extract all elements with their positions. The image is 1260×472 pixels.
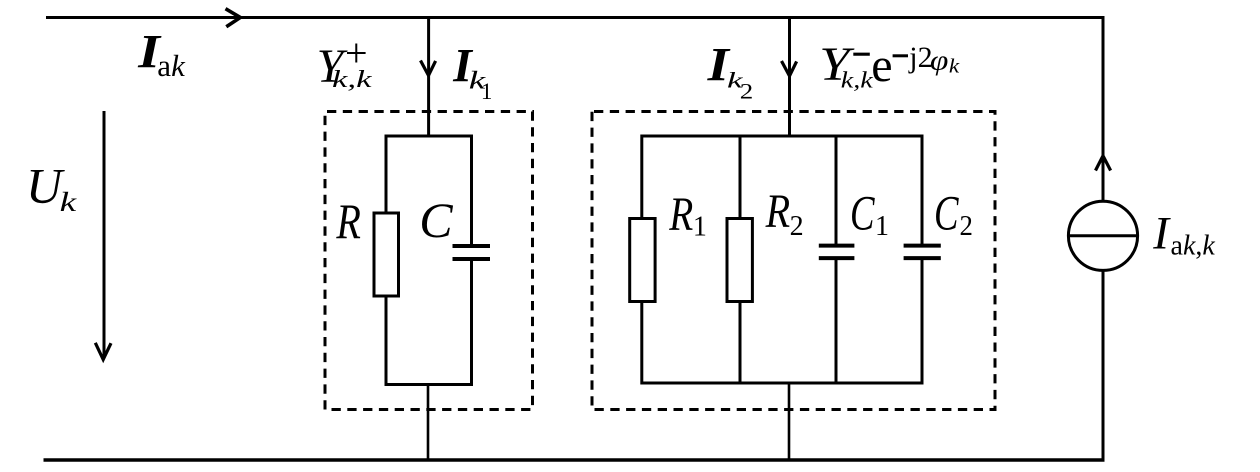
wire: C branch upper	[470, 135, 473, 247]
svg-text:ak,k: ak,k	[1171, 231, 1216, 262]
capacitor C top plate	[453, 244, 491, 248]
capacitor C2 top plate	[904, 244, 941, 248]
arrowhead up (I_ak,k direction)	[1096, 156, 1111, 171]
wire: R1 branch lower	[640, 302, 643, 385]
svg-text:k: k	[60, 187, 78, 217]
wire: right bus lower segment	[1102, 270, 1105, 460]
svg-text:R: R	[765, 185, 790, 238]
wire: C2 branch upper	[921, 135, 924, 246]
svg-text:R: R	[668, 188, 693, 241]
wire: R2 branch lower	[739, 302, 742, 385]
resistor R2	[727, 219, 752, 302]
svg-text:2: 2	[740, 79, 754, 104]
wire: C1 branch lower	[835, 258, 838, 384]
current source bar	[1068, 234, 1137, 237]
svg-text:k,k: k,k	[332, 67, 372, 93]
svg-text:2: 2	[960, 211, 973, 242]
arrowhead down (I_k2 direction)	[782, 61, 797, 76]
wire: box2 bottom bar	[642, 382, 924, 385]
svg-text:R: R	[336, 193, 361, 249]
svg-text:k,k: k,k	[841, 68, 874, 93]
svg-text:I: I	[1152, 208, 1171, 260]
wire: bottom bus	[44, 458, 1105, 462]
capacitor C1 top plate	[819, 244, 855, 248]
svg-text:C: C	[850, 185, 875, 241]
arrowhead down (I_k1 direction)	[421, 61, 436, 76]
svg-text:C: C	[419, 192, 453, 248]
wire: stub from top bus into box Y-	[788, 18, 791, 137]
wire: R1 branch upper	[640, 135, 643, 219]
svg-text:φ: φ	[930, 45, 949, 77]
resistor R	[374, 213, 399, 296]
capacitor C1 bottom plate	[819, 256, 855, 260]
arrowhead on top bus (I_ak direction)	[226, 9, 241, 27]
wire: box1 top bar	[386, 135, 472, 138]
wire: stub from top bus into box Y+	[427, 18, 430, 137]
svg-text:1: 1	[875, 211, 889, 242]
wire: stub from box1 to bottom bus	[427, 385, 430, 461]
svg-text:e: e	[871, 39, 892, 92]
dashed box Y-	[592, 112, 995, 410]
wire: R2 branch upper	[739, 135, 742, 219]
wire: box1 bottom bar	[386, 383, 472, 386]
resistor R1	[630, 219, 655, 302]
capacitor C bottom plate	[453, 257, 491, 261]
capacitor C2 bottom plate	[904, 256, 941, 260]
svg-text:ak: ak	[157, 48, 186, 83]
U_k voltage arrow	[103, 111, 106, 357]
wire: box2 top bar	[642, 135, 924, 138]
svg-text:2: 2	[790, 211, 804, 242]
wire: R branch upper	[385, 135, 388, 214]
current source I_ak,k circle	[1068, 201, 1137, 270]
svg-text:1: 1	[481, 79, 493, 104]
svg-text:k: k	[949, 56, 961, 78]
dashed box Y+	[325, 112, 533, 410]
wire: C branch lower	[470, 259, 473, 386]
svg-text:C: C	[934, 185, 959, 241]
wire: C1 branch upper	[835, 135, 838, 246]
wire: right bus upper segment	[1102, 16, 1105, 201]
wire: R branch lower	[385, 296, 388, 386]
wire: stub from box2 to bottom bus	[788, 383, 791, 460]
svg-text:1: 1	[693, 212, 707, 243]
wire: C2 branch lower	[921, 258, 924, 384]
wire: top bus	[46, 16, 1103, 19]
